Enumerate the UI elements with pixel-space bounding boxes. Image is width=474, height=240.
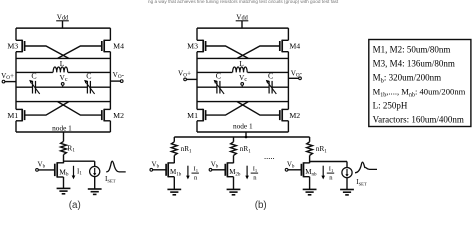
value label M3 M4 sizes: [373, 59, 455, 69]
svg-text:Vdd: Vdd: [57, 13, 69, 21]
wire bottom drain line (b): [197, 101, 288, 103]
ground M1b branch (b): [167, 189, 181, 194]
wire right rail (b): [287, 28, 289, 132]
svg-text:M4: M4: [289, 42, 300, 51]
svg-text:M1: M1: [187, 111, 198, 120]
wire to Iset source (b): [346, 162, 348, 168]
current arrow I1/n M1b branch (b): [186, 166, 199, 182]
wire varactor line (a): [16, 86, 110, 88]
wire rail to resistor M1b branch (b): [173, 137, 175, 142]
value label M1 M2 sizes: [373, 45, 451, 55]
value label varactor size: [373, 114, 464, 124]
svg-text:M2: M2: [113, 111, 124, 120]
svg-text:M3, M4: 136um/80nm: M3, M4: 136um/80nm: [373, 59, 455, 69]
caption fragment (cut off at top): [148, 0, 339, 4]
wire to Iset source (a): [94, 161, 96, 166]
svg-text:(b): (b): [255, 200, 267, 211]
wire left rail (a): [15, 28, 17, 132]
svg-text:.....: .....: [264, 151, 275, 161]
junction dot node1 tail (b): [245, 136, 248, 139]
svg-text:M1, M2: 50um/80nm: M1, M2: 50um/80nm: [373, 45, 451, 55]
value label Mb size: [373, 73, 441, 85]
svg-text:C: C: [31, 72, 36, 81]
wire tail rail (b): [174, 136, 309, 138]
wire right rail (a): [109, 28, 111, 132]
wire Iset to ground (b): [346, 178, 348, 190]
power Vdd supply (b): [236, 13, 249, 28]
node Vb bias input Mnb branch (b): [285, 160, 301, 171]
svg-text:ng a way that achieves fine tu: ng a way that achieves fine tuning resis…: [148, 0, 339, 4]
svg-text:L: 250pH: L: 250pH: [373, 100, 408, 110]
node Vc control terminal (a): [59, 73, 67, 87]
wire node1 drop (b): [245, 132, 247, 137]
transistor M1b M1b branch (b): [166, 162, 182, 177]
svg-text:node 1: node 1: [52, 123, 72, 132]
resistor nR1 M1b branch (b): [171, 142, 192, 156]
capacitor C left varactor (a): [29, 72, 40, 94]
wire M1 gate cross-couple (b): [206, 102, 249, 116]
wire bottom drain line (a): [16, 101, 110, 103]
wire M4 gate cross-couple (a): [58, 46, 102, 58]
wire resistor to drain Mnb branch (b): [309, 155, 311, 163]
transistor M1 (b): [187, 109, 205, 122]
transistor M4 (a): [102, 40, 124, 53]
transistor M2b M2b branch (b): [225, 162, 241, 177]
power Vdd supply (a): [56, 13, 69, 28]
wire top rail (b): [197, 27, 288, 29]
current source ISET (b): [342, 168, 352, 178]
node Vb bias input M1b branch (b): [150, 160, 166, 171]
caption (b): [255, 200, 267, 211]
wire M3 gate cross-couple (a): [25, 46, 69, 58]
wire left rail (b): [196, 28, 198, 132]
wire top rail (a): [16, 27, 110, 29]
capacitor C left varactor (b): [214, 72, 225, 94]
svg-text:(a): (a): [69, 200, 81, 211]
svg-text:Varactors: 160um/400nm: Varactors: 160um/400nm: [373, 114, 464, 124]
wire rail to resistor M2b branch (b): [233, 137, 235, 142]
wire node1 to R1 (a): [63, 132, 65, 141]
current arrow I1 (a): [72, 166, 83, 180]
node 1 label (b): [233, 122, 253, 131]
node Vc control terminal (b): [239, 73, 247, 87]
current arrow I1/n M2b branch (b): [245, 166, 258, 182]
node Vo- output terminal (b): [288, 69, 302, 79]
node Vo+ output terminal (a): [1, 72, 16, 83]
svg-text:C: C: [268, 72, 273, 81]
node Vb bias input M2b branch (b): [209, 160, 225, 171]
svg-text:M2: M2: [289, 111, 300, 120]
svg-text:C: C: [216, 72, 221, 81]
capacitor C right varactor (a): [84, 72, 95, 94]
wire source to ground M2b branch (b): [233, 177, 235, 190]
svg-text:M1b​,...., Mnb​: 40um/200nm: M1b​,...., Mnb​: 40um/200nm: [373, 87, 466, 99]
svg-text:node 1: node 1: [233, 122, 253, 131]
wire resistor to drain M1b branch (b): [173, 155, 175, 163]
caption (a): [69, 200, 81, 211]
svg-text:C: C: [86, 72, 91, 81]
wire M1 gate cross-couple (a): [25, 102, 69, 116]
value label M1b Mnb sizes: [373, 87, 466, 99]
ellipsis dots (b): [264, 151, 275, 161]
current source ISET (a): [90, 166, 100, 176]
wire top drain line (a): [16, 57, 110, 59]
ground ISET (a): [88, 189, 102, 194]
wire drain to current source (a): [64, 160, 95, 162]
node Vo+ output terminal (b): [178, 69, 197, 80]
svg-text:Mb​: 320um/200nm: Mb​: 320um/200nm: [373, 73, 441, 85]
node Vo- output terminal (a): [110, 71, 124, 82]
wire varactor line (b): [197, 86, 288, 88]
inductor L (b): [197, 59, 288, 72]
wire bottom rail node 1 (a): [16, 131, 110, 133]
waveform pulse (a): [106, 161, 126, 172]
transistor M3 (b): [187, 40, 205, 53]
waveform pulse (b): [355, 162, 377, 173]
transistor Mnb Mnb branch (b): [301, 162, 317, 177]
transistor M2 (b): [280, 109, 301, 122]
resistor R1 (a): [61, 141, 76, 154]
label ISET (b): [356, 178, 367, 186]
inductor L (a): [16, 59, 110, 72]
transistor Mb (a): [55, 162, 69, 177]
ground M2b branch (b): [227, 189, 241, 194]
capacitor C right varactor (b): [266, 72, 277, 94]
wire resistor to drain M2b branch (b): [233, 155, 235, 163]
ground ISET (b): [340, 190, 354, 195]
wire M2 gate cross-couple (a): [58, 102, 102, 116]
wire M4 gate cross-couple (b): [237, 46, 280, 58]
transistor M1 (a): [7, 109, 24, 122]
label ISET (a): [105, 175, 116, 183]
wire Iset to ground (a): [94, 177, 96, 189]
transistor M3 (a): [7, 40, 24, 53]
transistor M4 (b): [280, 40, 301, 53]
current arrow I1/n Mnb branch (b): [321, 166, 334, 182]
svg-text:M1: M1: [7, 111, 18, 120]
svg-text:M3: M3: [7, 42, 18, 51]
value label L inductance: [373, 100, 408, 110]
legend box border: [369, 40, 471, 127]
wire source to ground Mnb branch (b): [309, 177, 311, 190]
wire source to ground M1b branch (b): [173, 177, 175, 190]
wire top drain line (b): [197, 57, 288, 59]
wire Mb source to ground (a): [63, 177, 65, 188]
node Vb bias input (a): [36, 161, 55, 172]
svg-text:M4: M4: [113, 42, 124, 51]
wire bottom rail node 1 (b): [197, 131, 288, 133]
svg-text:L: L: [60, 59, 65, 68]
svg-text:Vdd: Vdd: [236, 13, 248, 21]
transistor M2 (a): [102, 109, 124, 122]
wire rail to resistor Mnb branch (b): [309, 137, 311, 142]
resistor nR1 M2b branch (b): [231, 142, 252, 156]
ground Mb (a): [57, 188, 71, 193]
svg-text:L: L: [239, 59, 244, 68]
wire M2 gate cross-couple (b): [237, 102, 280, 116]
wire drain to current source (b): [310, 161, 347, 163]
wire R1 to Mb drain (a): [63, 155, 65, 164]
node 1 label (a): [52, 123, 72, 132]
svg-text:M3: M3: [187, 42, 198, 51]
wire M3 gate cross-couple (b): [206, 46, 249, 58]
resistor nR1 Mnb branch (b): [307, 142, 328, 156]
ground Mnb branch (b): [303, 189, 317, 194]
